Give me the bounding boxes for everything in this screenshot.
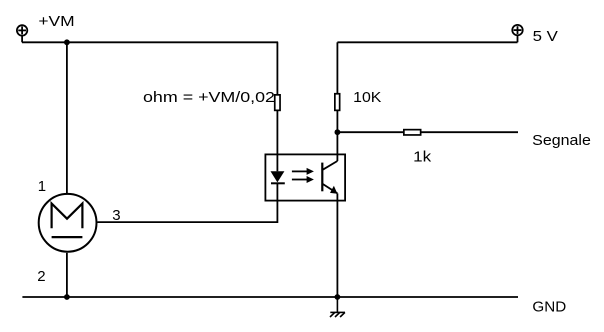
- wire resistor R1 to optocoupler: [276, 111, 278, 155]
- junction collector / signal: [335, 129, 341, 135]
- svg-text:ohm = +VM/0,02: ohm = +VM/0,02: [143, 89, 275, 106]
- svg-text:GND: GND: [532, 298, 566, 315]
- wire rail to resistor R1: [276, 42, 278, 94]
- light arrows: [292, 168, 314, 183]
- ground symbol: [330, 297, 345, 317]
- svg-text:1k: 1k: [413, 149, 432, 166]
- resistor R1 ohm = +VM/0,02: [275, 95, 280, 111]
- wire motor pin 1: [66, 42, 68, 193]
- svg-text:10K: 10K: [353, 89, 381, 106]
- svg-text:5 V: 5 V: [533, 28, 558, 45]
- resistor R3 1k: [404, 130, 421, 135]
- motor M1: [39, 194, 97, 252]
- svg-text:1: 1: [38, 178, 46, 195]
- junction motor pin 2 / GND rail: [64, 294, 70, 300]
- svg-text:+VM: +VM: [38, 13, 74, 30]
- wire junction to collector: [336, 132, 338, 154]
- phototransistor Q1: [322, 154, 337, 200]
- wire emitter to GND rail: [336, 201, 338, 297]
- optocoupler LED D1: [271, 154, 285, 200]
- svg-text:Segnale: Segnale: [532, 132, 591, 149]
- junction +VM / motor pin 1: [64, 39, 70, 45]
- wire 5V rail: [337, 41, 517, 43]
- wire motor pin 3 to optocoupler LED: [98, 201, 278, 223]
- wire +VM rail: [22, 41, 278, 43]
- terminal +VM: [17, 25, 27, 42]
- terminal 5V: [512, 25, 522, 42]
- svg-text:2: 2: [37, 268, 45, 285]
- wire 5V rail to resistor R2: [336, 42, 338, 93]
- wire motor pin 2: [66, 253, 68, 297]
- wire GND rail: [22, 296, 518, 298]
- junction emitter / GND rail: [335, 294, 341, 300]
- resistor R2 10K: [335, 94, 340, 111]
- wire signal net: [337, 131, 518, 133]
- wire resistor R2 to junction: [336, 110, 338, 132]
- optocoupler U1 body: [265, 154, 345, 200]
